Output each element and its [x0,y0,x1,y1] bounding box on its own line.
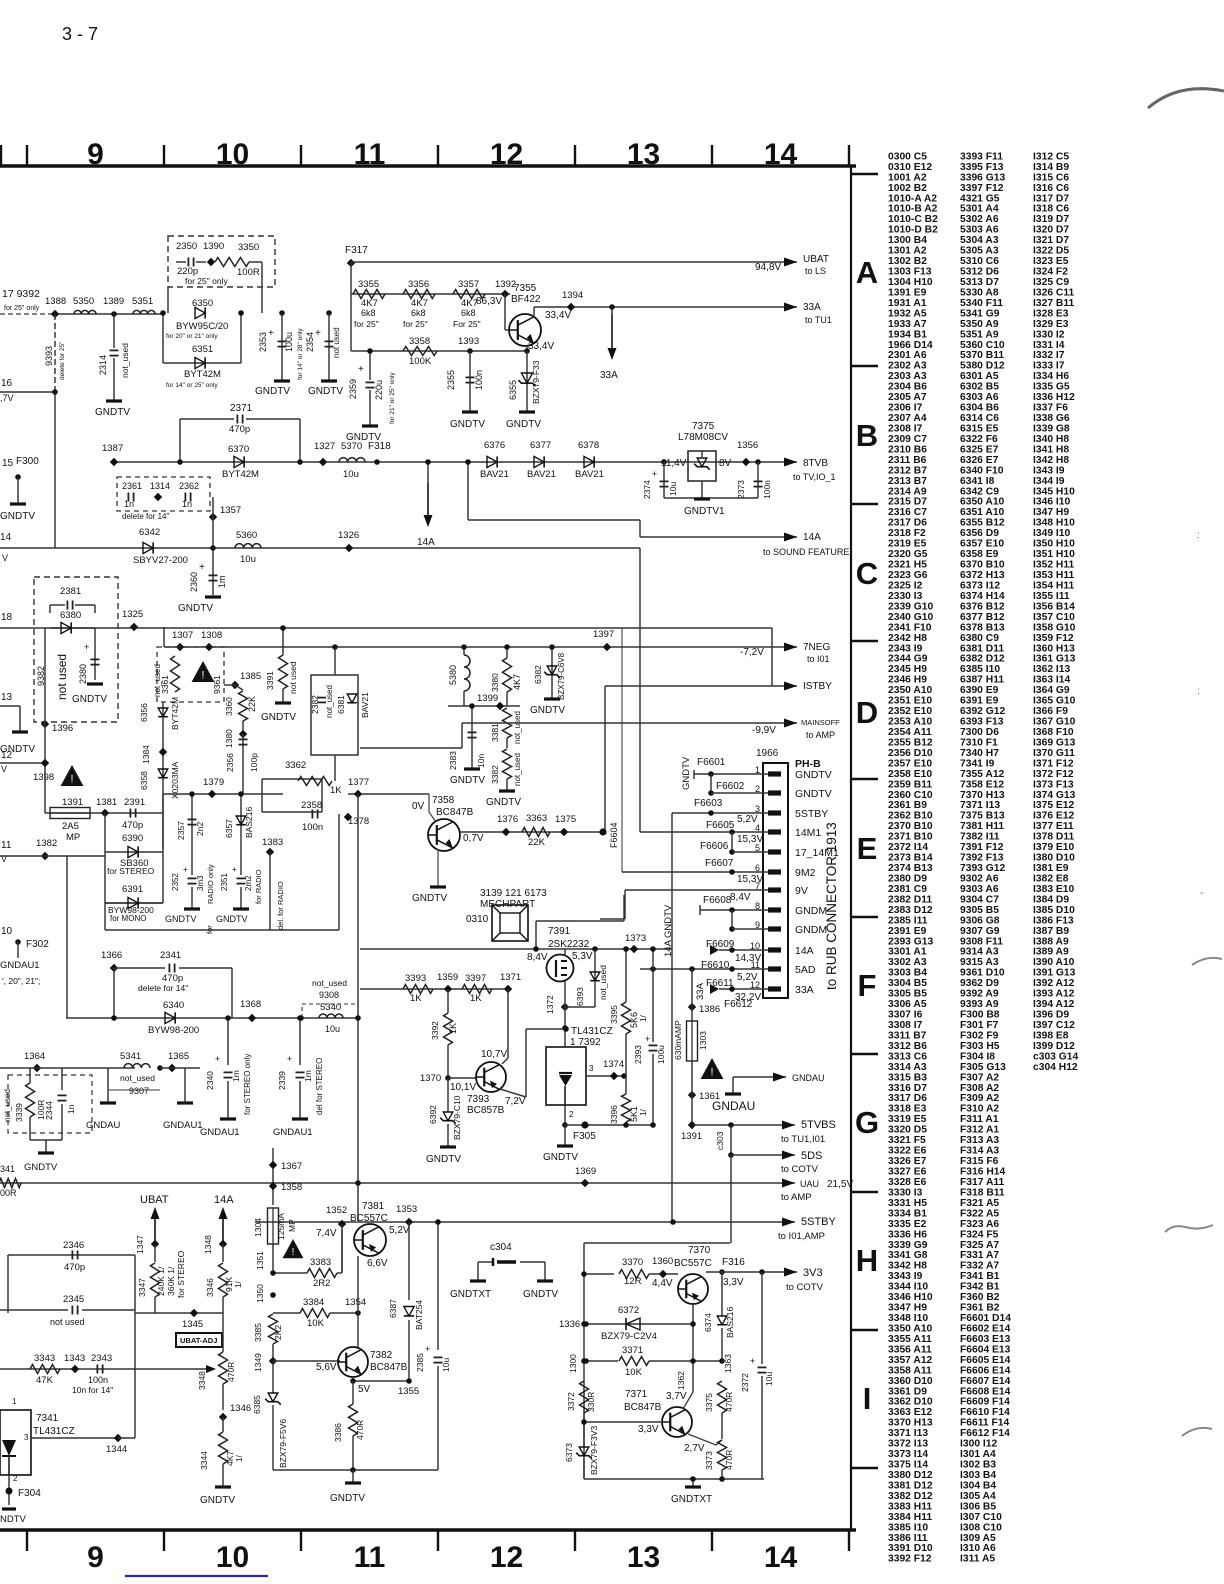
svg-text:2353: 2353 [258,332,268,352]
svg-text:2385: 2385 [415,1353,425,1372]
node I369 [581,1179,589,1187]
svg-text:2355: 2355 [446,370,456,390]
svg-text:1366: 1366 [101,950,122,961]
svg-text:!: ! [202,669,205,681]
arrow 7NEG to I01 [784,643,797,652]
node I381 [101,809,109,817]
svg-text:I315 C6: I315 C6 [1033,172,1069,183]
svg-text:I322 D5: I322 D5 [1033,246,1069,257]
svg-text:2361: 2361 [122,481,142,491]
svg-text:2362 B10: 2362 B10 [888,811,933,822]
svg-text:3315 B3: 3315 B3 [888,1072,927,1083]
svg-text:1352: 1352 [326,1205,347,1216]
svg-text:GNDTV: GNDTV [530,705,565,716]
svg-text:6391: 6391 [122,884,143,895]
reference list column 2 [960,151,1011,1564]
zener 6385 BZX79-F5V6 [272,1361,274,1393]
ground GNDAU1 2339 [292,1117,308,1120]
svg-text:5351 A9: 5351 A9 [960,329,999,340]
svg-text:BZX79-C10: BZX79-C10 [452,1095,462,1140]
svg-text:1300: 1300 [568,1354,578,1373]
capacitor c303 [730,1125,732,1155]
svg-text:12: 12 [1,750,13,761]
svg-text:UBAT: UBAT [803,254,829,265]
fuse point F304 [8,1475,10,1505]
row boundary dash [851,778,878,780]
svg-text:I335 G5: I335 G5 [1033,382,1070,393]
svg-text:2309 C7: 2309 C7 [888,434,927,445]
svg-text:2308 I7: 2308 I7 [888,424,923,435]
svg-text:A: A [856,255,878,290]
svg-text:9393: 9393 [44,346,54,366]
svg-text:I371 F12: I371 F12 [1033,758,1074,769]
diode 6393 not used [594,949,596,1007]
svg-text:F6612: F6612 [724,999,753,1010]
ground GNDAU1 2340 [220,1117,236,1120]
svg-text:I385 D10: I385 D10 [1033,905,1075,916]
svg-text:2352 E10: 2352 E10 [888,706,932,717]
svg-text:3362 D10: 3362 D10 [888,1397,933,1408]
svg-text:I365 G10: I365 G10 [1033,696,1076,707]
svg-text:9314 A3: 9314 A3 [960,947,999,958]
svg-text:F301 F7: F301 F7 [960,1020,999,1031]
svg-text:14: 14 [0,532,12,543]
svg-text:not_used: not_used [153,664,162,697]
svg-text:3326 E7: 3326 E7 [888,1156,927,1167]
svg-text:B: B [856,418,878,453]
node I314 [154,493,162,501]
wire 7371 emitter [688,1434,722,1445]
svg-text:6373: 6373 [564,1443,574,1462]
svg-text:For 25": For 25" [453,319,481,329]
ground GNDTV 7358 [437,849,439,886]
svg-text:3307 I6: 3307 I6 [888,1010,923,1021]
svg-text:6387: 6387 [388,1299,398,1318]
svg-text:BC857B: BC857B [467,1105,505,1116]
svg-text:6376: 6376 [484,440,505,451]
svg-text:7310 F1: 7310 F1 [960,737,998,748]
svg-text:G: G [855,1105,879,1140]
wire 7391 drain [592,946,598,952]
svg-text:F6607 E14: F6607 E14 [960,1376,1011,1387]
svg-text:F6611: F6611 [706,978,734,989]
svg-text:2373 B14: 2373 B14 [888,853,933,864]
svg-text:10n for 14": 10n for 14" [72,1385,113,1395]
svg-text:F360 B2: F360 B2 [960,1292,1000,1303]
wire I379 row [163,793,283,795]
svg-text:5310 C6: 5310 C6 [960,256,999,267]
node I391 [688,1121,696,1129]
wire 9V pin7 [625,889,768,891]
svg-text:for 14" or 28" only: for 14" or 28" only [297,328,304,380]
svg-text:3386 I11: 3386 I11 [888,1533,928,1544]
svg-text:for 25": for 25" [354,319,379,329]
svg-text:5350: 5350 [73,296,94,307]
svg-text:5TVBS: 5TVBS [801,1119,836,1131]
svg-text:F322 A5: F322 A5 [960,1208,999,1219]
svg-text:1933 A7: 1933 A7 [888,319,927,330]
svg-text:5360: 5360 [236,530,257,541]
svg-text:V: V [2,553,8,563]
svg-text:I375 E12: I375 E12 [1033,800,1074,811]
svg-text:F318 B11: F318 B11 [960,1187,1005,1198]
svg-text:3397: 3397 [465,973,486,984]
svg-text:GNDM: GNDM [795,905,827,917]
svg-text:1010-D B2: 1010-D B2 [888,225,938,236]
node I375 [560,828,568,836]
svg-text:5303 A6: 5303 A6 [960,225,999,236]
diode 6358 X0203MA [158,769,168,778]
svg-text:UBAT: UBAT [140,1194,169,1206]
svg-text:UBAT-ADJ: UBAT-ADJ [180,1336,217,1345]
resistor 3356 [403,290,435,299]
svg-text:6358: 6358 [139,771,149,790]
svg-text:2358 E10: 2358 E10 [888,769,932,780]
svg-text:+: + [750,1356,755,1366]
node I392 [501,290,509,298]
inductor 5360 10u [235,544,261,548]
svg-text:330R: 330R [586,1392,596,1412]
svg-text:2374: 2374 [642,480,652,499]
svg-text:I312 C5: I312 C5 [1033,151,1069,162]
fuse F6603 [672,812,768,814]
svg-text:BAS216: BAS216 [244,807,254,838]
node I388 [51,310,59,318]
svg-text:F6608: F6608 [703,895,732,906]
fuse F6608 [700,909,768,911]
svg-text:BC557C: BC557C [350,1213,388,1224]
svg-text:7340 H7: 7340 H7 [960,748,999,759]
svg-text:H: H [856,1243,878,1278]
svg-text:F: F [858,968,877,1003]
svg-text:I310 A6: I310 A6 [960,1543,996,1554]
svg-text:I383 E10: I383 E10 [1033,884,1074,895]
svg-text:3358 A11: 3358 A11 [888,1365,932,1376]
transistor 7382 BC847B [338,1347,368,1377]
svg-text:2343 I9: 2343 I9 [888,643,923,654]
node I393 [467,348,473,354]
resistor 3357 [453,290,485,299]
svg-text:not_used: not_used [325,685,334,718]
svg-text:2345: 2345 [63,1294,84,1305]
svg-text:+: + [315,328,321,339]
svg-text:GNDAU1: GNDAU1 [200,1127,240,1138]
svg-text:1382: 1382 [36,838,57,849]
capacitor 2374 10u [661,459,667,465]
svg-text:3 - 7: 3 - 7 [62,24,98,44]
wire 3358 row [351,350,527,352]
ground GNDTXT c304 [470,1279,486,1282]
dashed box 3339 [8,1075,92,1133]
svg-text:1/: 1/ [235,1455,244,1462]
svg-text:+: + [652,469,657,479]
svg-text:to TV,IO_1: to TV,IO_1 [793,472,836,482]
svg-text:1387: 1387 [102,443,123,454]
top ruler tick [848,145,850,166]
svg-text:10n: 10n [476,754,486,768]
svg-text:F300: F300 [16,456,39,467]
svg-text:7370 H13: 7370 H13 [960,790,1005,801]
svg-text:9392 A9: 9392 A9 [960,989,999,1000]
svg-text:11: 11 [1,840,12,851]
svg-text:I373 F13: I373 F13 [1033,779,1074,790]
svg-text:I341 H8: I341 H8 [1033,444,1069,455]
node I346 [219,1413,227,1421]
svg-text:I345 H10: I345 H10 [1033,486,1075,497]
wire main input [55,313,163,315]
junction F6604 [599,828,606,835]
svg-text:BYW95C/20: BYW95C/20 [176,321,228,332]
resistor 3347 240K [151,1263,160,1297]
svg-text:I308 C10: I308 C10 [960,1522,1002,1533]
wire 7NEG [164,646,797,648]
wire left loop [8,1254,135,1256]
node I347 [151,1240,159,1248]
node I361 [688,1091,696,1099]
svg-text:F6602: F6602 [716,781,745,792]
svg-text:BZX79-F3V3: BZX79-F3V3 [589,1426,599,1475]
svg-text:I384 D9: I384 D9 [1033,894,1069,905]
svg-text:3380: 3380 [490,673,500,692]
svg-text:91K: 91K [224,1277,234,1292]
svg-text:I302 B3: I302 B3 [960,1460,996,1471]
diode 6356 BYT42M [158,708,168,717]
svg-text:2340 G10: 2340 G10 [888,612,934,623]
top ruler tick [300,145,302,166]
node I353 [405,1218,413,1226]
node I365 [168,1064,176,1072]
svg-text:F305: F305 [573,1131,596,1142]
svg-text:1336: 1336 [559,1319,580,1330]
svg-text:7382: 7382 [370,1350,393,1361]
svg-text:360K 1/: 360K 1/ [166,1266,176,1296]
svg-text:F324 F5: F324 F5 [960,1229,999,1240]
node I355 [406,1378,412,1384]
svg-text:2318 F2: 2318 F2 [888,528,926,539]
svg-text:F325 A7: F325 A7 [960,1240,999,1251]
svg-text:I381 E9: I381 E9 [1033,863,1069,874]
svg-text:3313 C6: 3313 C6 [888,1051,927,1062]
svg-text:0300 C5: 0300 C5 [888,151,927,162]
svg-text:I362 I13: I362 I13 [1033,664,1070,675]
wire wiper [135,1368,206,1370]
svg-text:for RADIO: for RADIO [254,869,263,904]
svg-text:2371 B10: 2371 B10 [888,832,933,843]
svg-text:3370: 3370 [622,1257,643,1268]
resistor 3372 330R [580,1381,589,1413]
svg-text:9305 B5: 9305 B5 [960,905,999,916]
svg-text:GNDTV: GNDTV [681,756,692,790]
svg-text:5STBY: 5STBY [801,1216,837,1228]
svg-text:2330 I3: 2330 I3 [888,591,923,602]
svg-text:I388 A9: I388 A9 [1033,936,1069,947]
svg-text:I342 H8: I342 H8 [1033,455,1069,466]
svg-text:c303: c303 [715,1131,725,1150]
zener 6382 BZX79-C6V8 [551,647,553,698]
svg-text:GNDTV: GNDTV [426,1154,461,1165]
svg-text:6381 D11: 6381 D11 [960,643,1004,654]
svg-text:2360: 2360 [189,572,199,592]
svg-text:5340 F11: 5340 F11 [960,298,1003,309]
node I390 [207,258,215,266]
svg-text:F302 F9: F302 F9 [960,1031,999,1042]
ground GNDTXT 7371 [692,1479,694,1486]
svg-text:10K: 10K [307,1318,325,1329]
svg-text:3348 I10: 3348 I10 [888,1313,928,1324]
svg-text:6304 B6: 6304 B6 [960,403,999,414]
svg-text:I305 A4: I305 A4 [960,1491,996,1502]
svg-text:I377 E11: I377 E11 [1033,821,1074,832]
svg-text:6385: 6385 [252,1395,262,1414]
svg-text:6341 I8: 6341 I8 [960,476,995,487]
svg-text:for 25": for 25" [403,319,428,329]
svg-text:3392: 3392 [430,1021,440,1040]
resistor 3375 470R [718,1381,727,1413]
svg-text:GNDTV: GNDTV [0,511,35,522]
svg-text:I309 A5: I309 A5 [960,1533,996,1544]
svg-text:3342 H8: 3342 H8 [888,1261,927,1272]
resistor 3393 1K [403,985,433,994]
svg-text:GNDAU: GNDAU [86,1120,120,1131]
svg-text:3,3V: 3,3V [723,1277,744,1288]
svg-text:3,7V: 3,7V [666,1391,687,1402]
svg-text:1010-C B2: 1010-C B2 [888,214,938,225]
svg-text:2302 A3: 2302 A3 [888,361,927,372]
svg-text:22K: 22K [247,696,257,712]
svg-text:I338 G6: I338 G6 [1033,413,1070,424]
capacitor 2383 10n [471,706,473,745]
svg-text:3373 I14: 3373 I14 [888,1449,928,1460]
svg-text:2344: 2344 [44,1101,54,1120]
svg-text:GNDTV: GNDTV [506,419,541,430]
svg-text:3304 B5: 3304 B5 [888,978,927,989]
svg-text:5,6V: 5,6V [316,1362,337,1373]
svg-text:F316 H14: F316 H14 [960,1167,1005,1178]
node I377 [354,790,362,798]
svg-text:7358: 7358 [432,795,455,806]
wire MAINSOFF [360,747,462,749]
svg-text:I327 B11: I327 B11 [1033,298,1074,309]
svg-text:10: 10 [216,1541,249,1574]
svg-text:BAV21: BAV21 [360,692,370,718]
svg-text:1393: 1393 [458,336,479,347]
wire 14A branch [467,462,469,520]
svg-text:12: 12 [490,138,523,171]
svg-text:I351 H10: I351 H10 [1033,549,1075,560]
svg-text:2344 G9: 2344 G9 [888,654,928,665]
svg-text:7355 A12: 7355 A12 [960,769,1005,780]
svg-text:10,7V: 10,7V [481,1049,507,1060]
svg-text:2357: 2357 [176,821,186,840]
svg-text:6356 D9: 6356 D9 [960,528,999,539]
svg-text:3327 E6: 3327 E6 [888,1167,927,1178]
node I325 [130,623,138,631]
svg-text:to I01,AMP: to I01,AMP [778,1231,825,1242]
svg-text:not used: not used [50,1317,85,1327]
svg-text:2353 A10: 2353 A10 [888,717,933,728]
svg-text:1326: 1326 [338,530,359,541]
node I373 [630,945,638,953]
svg-text:I329 E3: I329 E3 [1033,319,1069,330]
svg-text:2321 H5: 2321 H5 [888,560,927,571]
svg-text:9308: 9308 [319,990,339,1000]
ground GNDTV 2359 [362,424,378,427]
svg-text:GNDTV1: GNDTV1 [684,506,725,517]
fuse F6605 [640,831,768,833]
svg-text:3363 E12: 3363 E12 [888,1407,932,1418]
node I351 [270,1270,276,1276]
svg-text:5380: 5380 [448,665,458,685]
svg-text:I317 D7: I317 D7 [1033,193,1069,204]
svg-text:I392 A12: I392 A12 [1033,978,1075,989]
svg-text:8TVB: 8TVB [803,458,828,469]
svg-text:2R2: 2R2 [313,1278,330,1289]
svg-text:1397: 1397 [593,629,614,640]
svg-text:2305 A7: 2305 A7 [888,392,927,403]
wire 5STBY vertical link [254,1221,256,1223]
svg-text:2315 D7: 2315 D7 [888,497,927,508]
wire ISTBY [605,685,797,687]
arrow 14A down [427,483,429,521]
svg-text:3344 I10: 3344 I10 [888,1282,928,1293]
svg-text:I358 G10: I358 G10 [1033,622,1076,633]
capacitor 2359 220u [369,351,371,380]
box 2382/6381 [311,675,358,755]
svg-text:F6605: F6605 [706,820,735,831]
svg-text:2304 B6: 2304 B6 [888,382,927,393]
svg-text:1/: 1/ [234,1281,243,1288]
svg-text:13: 13 [627,1541,660,1574]
svg-text:3139 121 6173: 3139 121 6173 [480,888,547,899]
svg-text:1n: 1n [182,499,192,509]
svg-text:7393 G12: 7393 G12 [960,863,1006,874]
svg-text:3396 G13: 3396 G13 [960,172,1006,183]
svg-text:7382 I11: 7382 I11 [960,832,1000,843]
svg-text:+: + [183,865,188,874]
svg-text:to AMP: to AMP [781,1192,812,1203]
svg-text:1368: 1368 [240,999,261,1010]
svg-text:3356: 3356 [408,279,429,290]
svg-text:6372 H13: 6372 H13 [960,570,1005,581]
warning triangle 1304 [283,1239,304,1258]
svg-text:33A: 33A [795,984,814,996]
dashed option box delete for 14 [117,477,210,511]
svg-text:3347 H9: 3347 H9 [888,1303,927,1314]
svg-text:11: 11 [354,138,386,171]
node I357 [209,513,217,521]
svg-text:10u: 10u [668,482,678,496]
svg-text:TL431CZ: TL431CZ [571,1026,613,1037]
svg-text:1314: 1314 [150,481,170,491]
capacitor 2345 not used [0,1309,68,1311]
svg-text:6382: 6382 [533,665,543,684]
svg-text:3318 E3: 3318 E3 [888,1104,927,1115]
svg-text:3303 B4: 3303 B4 [888,968,927,979]
svg-text:3330 I3: 3330 I3 [888,1187,923,1198]
svg-text:F332 A7: F332 A7 [960,1261,999,1272]
svg-text:I357 C10: I357 C10 [1033,612,1075,623]
svg-text:3341 G8: 3341 G8 [888,1250,928,1261]
svg-text:6325 E7: 6325 E7 [960,444,999,455]
inductor 5370 10u [339,458,365,462]
svg-text:5K6: 5K6 [629,1012,639,1028]
svg-text:3m3: 3m3 [196,875,205,891]
svg-text:I367 G10: I367 G10 [1033,717,1076,728]
svg-text:3391 D10: 3391 D10 [888,1543,933,1554]
svg-text:2380 D9: 2380 D9 [888,874,927,885]
svg-text:7391: 7391 [548,926,571,937]
svg-text:6340 F10: 6340 F10 [960,465,1004,476]
